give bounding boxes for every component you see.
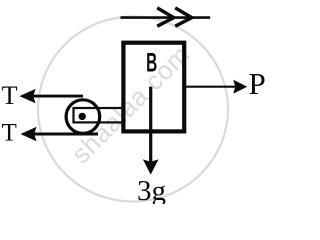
svg-text:T: T	[2, 120, 17, 147]
watermark circle	[38, 17, 228, 202]
svg-text:T: T	[2, 81, 18, 110]
force P arrowhead	[233, 80, 247, 94]
block B	[123, 43, 184, 132]
pulley wheel	[66, 100, 100, 134]
svg-text:B: B	[146, 47, 157, 78]
svg-text:P: P	[249, 66, 266, 101]
tension T bottom wire	[23, 133, 98, 136]
tension T top arrowhead	[20, 89, 36, 103]
motion chevron 2	[175, 8, 192, 26]
tension T top wire	[22, 95, 83, 98]
pulley bracket	[74, 108, 123, 122]
weight 3g wire	[149, 87, 152, 162]
motion direction line	[121, 16, 211, 19]
motion chevron 1	[157, 8, 174, 26]
tension T bottom arrowhead	[21, 127, 37, 141]
svg-text:3g: 3g	[137, 175, 166, 204]
force P wire	[184, 86, 236, 88]
pulley axle dot	[79, 113, 86, 120]
weight 3g arrowhead	[143, 159, 159, 174]
